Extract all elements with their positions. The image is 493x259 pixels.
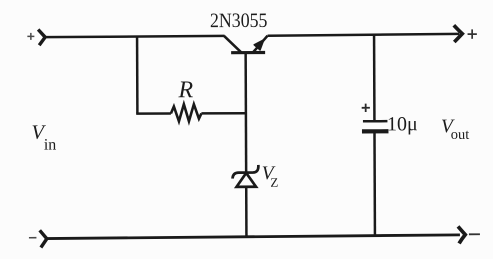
terminal + (input positive): [27, 29, 45, 45]
svg-text:in: in: [44, 137, 57, 154]
node A (top rail / R branch junction): [136, 36, 139, 113]
label Vout: [441, 116, 469, 143]
wire R branch right: [201, 112, 246, 115]
wire capacitor to bottom rail: [373, 131, 376, 235]
zener diode VZ: [232, 163, 278, 190]
svg-text:2N3055: 2N3055: [210, 10, 268, 32]
svg-text:Z: Z: [270, 175, 278, 190]
capacitor C1 10u: [362, 103, 418, 135]
resistor R: [171, 77, 202, 121]
wire bottom rail: [47, 235, 460, 239]
transistor Q1 2N3055: [210, 10, 268, 53]
label Vin: [31, 122, 56, 154]
wire base lead down: [244, 53, 247, 172]
svg-text:out: out: [451, 127, 470, 143]
svg-text:10μ: 10μ: [387, 113, 418, 135]
terminal - (output negative): [458, 226, 480, 243]
svg-text:R: R: [177, 77, 193, 103]
wire R branch left: [136, 112, 171, 115]
wire zener to bottom rail: [245, 187, 248, 237]
node B (top rail / capacitor junction): [373, 34, 376, 120]
wire top rail left: [45, 36, 225, 37]
terminal - (input negative): [29, 230, 47, 247]
terminal + (output positive): [454, 25, 477, 42]
wire top rail right: [268, 34, 460, 36]
